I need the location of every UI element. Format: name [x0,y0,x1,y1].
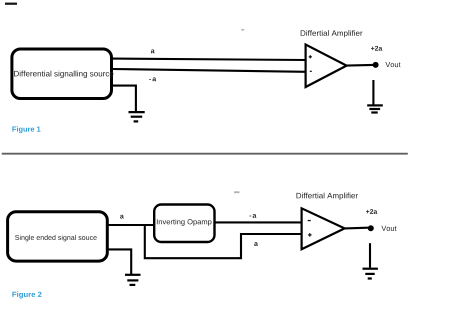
label Vout (figure 1) [385,62,400,67]
ground symbol at source (figure 1) [129,112,145,121]
label: Differtial Amplifier (figure 1) [301,30,363,37]
label a (lower, figure 2) [254,242,258,246]
ground symbol at source (figure 2) [125,275,141,285]
single ended signal source box [8,212,108,261]
label: Differtial Amplifier (figure 2) [297,193,358,200]
caption Figure 1 [12,126,40,133]
label Vout (figure 2) [381,226,396,231]
output wire (figure 1) [347,64,373,67]
stray mark above figure 2 amplifier [234,191,240,193]
label +2a (figure 1) [371,46,382,51]
wire a (source to op-amp, figure 1) [112,59,306,60]
label a (figure 1) [151,49,155,53]
ground symbol at output (figure 2) [363,269,378,279]
wire -a (opamp to diff amplifier, figure 2) [216,221,303,223]
op-amp A2 (figure 2) [302,208,345,249]
label a (top, figure 2) [120,215,124,219]
op-amp A1 (figure 1) [306,45,347,88]
wire -a (source to op-amp, figure 1) [112,69,306,72]
node Vout dot (figure 1) [373,62,379,68]
op-amp A2 plus input pin [308,233,312,237]
label -a (figure 1) [149,77,156,81]
inverting opamp box [154,205,214,243]
differential signalling source box [12,49,112,99]
op-amp A1 minus input pin [310,71,312,72]
op-amp A2 minus input pin [308,220,311,221]
ground wire from source box (figure 2) [108,249,131,274]
label +2a (figure 2) [366,209,377,214]
label: Inverting Opamp [157,219,212,226]
output wire (figure 2) [345,227,368,230]
label: Differential signalling source [14,71,113,78]
label -a (figure 2) [249,214,256,218]
branch wire a to non-inverting input (figure 2) [145,226,302,258]
caption Figure 2 [12,292,41,299]
label: Single ended signal souce [15,235,97,242]
ground symbol at output (figure 1) [367,105,383,112]
ground wire below output node (figure 2) [369,243,371,267]
ground wire below output node (figure 1) [372,80,374,105]
divider line [2,153,408,155]
wire a (source to inverting opamp) [108,224,155,226]
op-amp A1 plus input pin [309,55,312,58]
stray mark above figure 1 amplifier [241,29,244,31]
node Vout dot (figure 2) [368,225,374,231]
ground wire from source box (figure 1) [112,86,136,112]
stray pen mark top-left [5,3,17,5]
